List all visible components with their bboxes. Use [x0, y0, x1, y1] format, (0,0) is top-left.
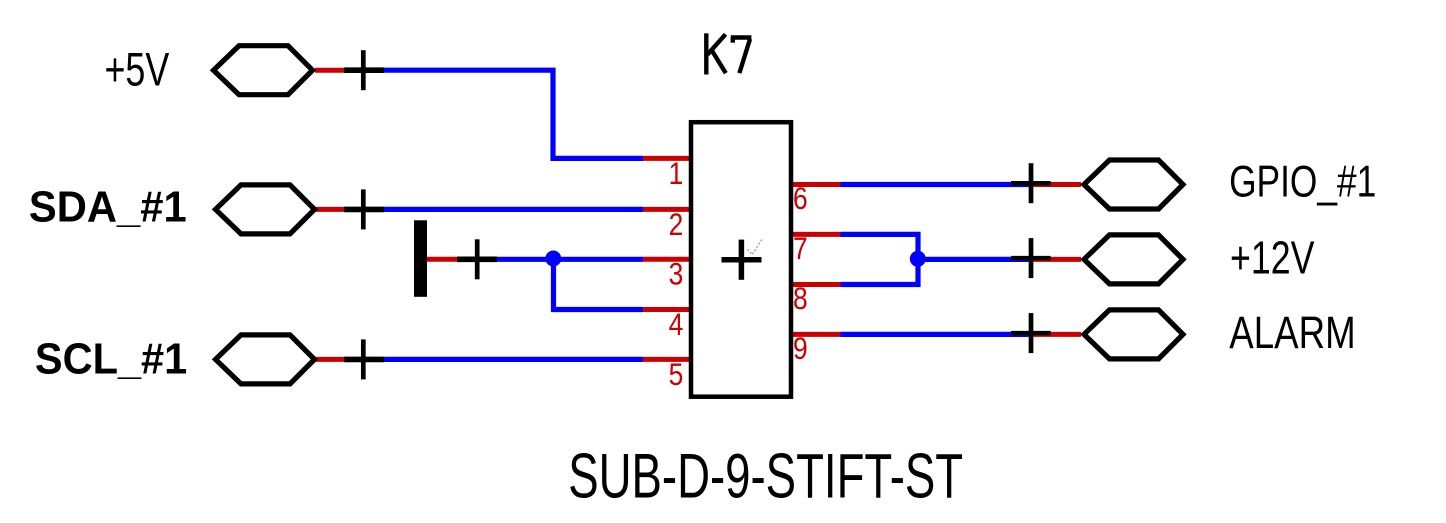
svg-text:+12V: +12V: [1230, 232, 1315, 283]
svg-text:SDA_#1: SDA_#1: [29, 183, 187, 232]
svg-text:6: 6: [793, 182, 808, 217]
svg-text:9: 9: [793, 332, 808, 367]
svg-text:8: 8: [793, 282, 808, 317]
svg-text:2: 2: [669, 208, 684, 243]
svg-text:SUB-D-9-STIFT-ST: SUB-D-9-STIFT-ST: [568, 440, 963, 511]
svg-text:1: 1: [669, 157, 684, 192]
svg-text:+5V: +5V: [105, 43, 170, 96]
svg-text:7: 7: [793, 232, 808, 267]
svg-text:SCL_#1: SCL_#1: [35, 335, 187, 384]
svg-text:3: 3: [669, 258, 684, 293]
svg-text:ALARM: ALARM: [1229, 307, 1355, 358]
svg-text:5: 5: [669, 358, 684, 393]
svg-text:GPIO_#1: GPIO_#1: [1229, 156, 1376, 207]
svg-text:4: 4: [669, 308, 684, 343]
